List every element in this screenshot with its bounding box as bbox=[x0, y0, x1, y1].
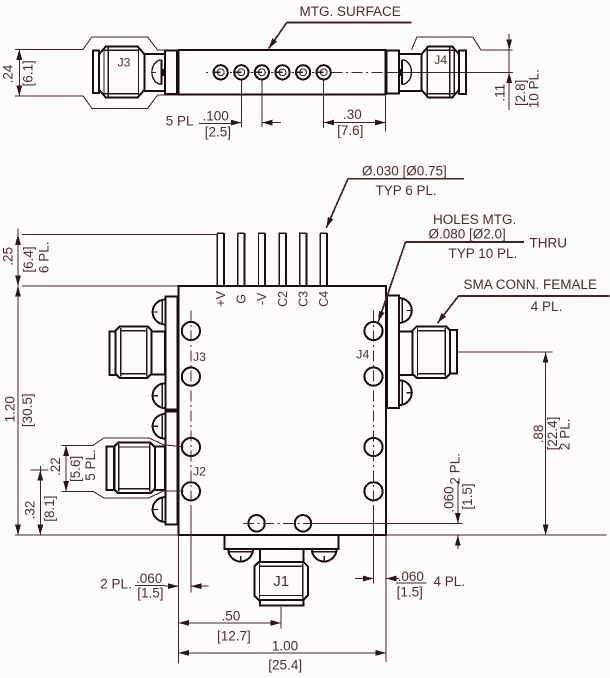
svg-text:THRU: THRU bbox=[530, 235, 568, 250]
svg-text:.88: .88 bbox=[531, 425, 546, 444]
svg-text:TYP 10 PL.: TYP 10 PL. bbox=[449, 246, 518, 261]
svg-text:[1.5]: [1.5] bbox=[460, 483, 475, 509]
svg-text:[2.5]: [2.5] bbox=[205, 125, 231, 140]
svg-text:2 PL.: 2 PL. bbox=[448, 453, 463, 485]
svg-text:TYP 6 PL.: TYP 6 PL. bbox=[376, 183, 437, 198]
svg-text:10 PL.: 10 PL. bbox=[526, 69, 541, 108]
svg-text:[8.1]: [8.1] bbox=[42, 495, 57, 521]
svg-text:.100: .100 bbox=[202, 108, 228, 123]
svg-text:.060: .060 bbox=[398, 569, 424, 584]
svg-text:J1: J1 bbox=[273, 573, 289, 590]
svg-text:[25.4]: [25.4] bbox=[268, 658, 302, 673]
svg-text:C3: C3 bbox=[296, 291, 310, 307]
svg-text:4 PL.: 4 PL. bbox=[434, 574, 466, 589]
svg-text:.30: .30 bbox=[343, 107, 362, 122]
svg-text:G: G bbox=[235, 294, 249, 304]
svg-text:.25: .25 bbox=[1, 247, 16, 266]
svg-text:[7.6]: [7.6] bbox=[337, 123, 363, 138]
svg-text:.11: .11 bbox=[493, 84, 508, 102]
svg-text:+V: +V bbox=[214, 290, 228, 306]
svg-text:J4: J4 bbox=[356, 348, 369, 362]
svg-text:MTG. SURFACE: MTG. SURFACE bbox=[300, 4, 401, 19]
svg-text:6 PL.: 6 PL. bbox=[36, 242, 51, 274]
svg-text:4 PL.: 4 PL. bbox=[531, 299, 563, 314]
svg-text:C2: C2 bbox=[276, 291, 290, 307]
svg-text:Ø.030 [Ø0.75]: Ø.030 [Ø0.75] bbox=[362, 163, 447, 178]
svg-text:-V: -V bbox=[255, 292, 269, 305]
svg-text:J4: J4 bbox=[434, 53, 447, 67]
svg-text:.060: .060 bbox=[441, 486, 456, 512]
svg-text:1.20: 1.20 bbox=[2, 396, 17, 422]
svg-text:2 PL.: 2 PL. bbox=[557, 419, 572, 451]
svg-text:.060: .060 bbox=[136, 571, 162, 586]
svg-text:[1.5]: [1.5] bbox=[137, 586, 163, 601]
svg-text:[6.4]: [6.4] bbox=[21, 246, 36, 272]
svg-text:.50: .50 bbox=[222, 608, 241, 623]
svg-text:[1.5]: [1.5] bbox=[397, 585, 423, 600]
svg-text:.24: .24 bbox=[0, 64, 15, 83]
svg-text:2 PL.: 2 PL. bbox=[100, 577, 132, 592]
svg-text:[6.1]: [6.1] bbox=[21, 60, 36, 86]
svg-text:C4: C4 bbox=[317, 291, 331, 307]
svg-text:[12.7]: [12.7] bbox=[217, 628, 251, 643]
svg-text:HOLES MTG.: HOLES MTG. bbox=[433, 212, 516, 227]
svg-text:[30.5]: [30.5] bbox=[20, 393, 35, 427]
svg-text:Ø.080 [Ø2.0]: Ø.080 [Ø2.0] bbox=[429, 227, 506, 242]
svg-text:J2: J2 bbox=[193, 464, 206, 478]
svg-text:5 PL: 5 PL bbox=[166, 114, 194, 129]
svg-text:SMA CONN. FEMALE: SMA CONN. FEMALE bbox=[464, 277, 598, 292]
svg-text:.22: .22 bbox=[48, 457, 63, 476]
svg-text:5 PL.: 5 PL. bbox=[83, 449, 98, 481]
svg-text:[5.6]: [5.6] bbox=[68, 456, 83, 482]
svg-text:J3: J3 bbox=[193, 350, 206, 364]
svg-text:1.00: 1.00 bbox=[272, 639, 298, 654]
svg-text:J3: J3 bbox=[118, 56, 131, 70]
svg-text:.32: .32 bbox=[23, 501, 38, 520]
